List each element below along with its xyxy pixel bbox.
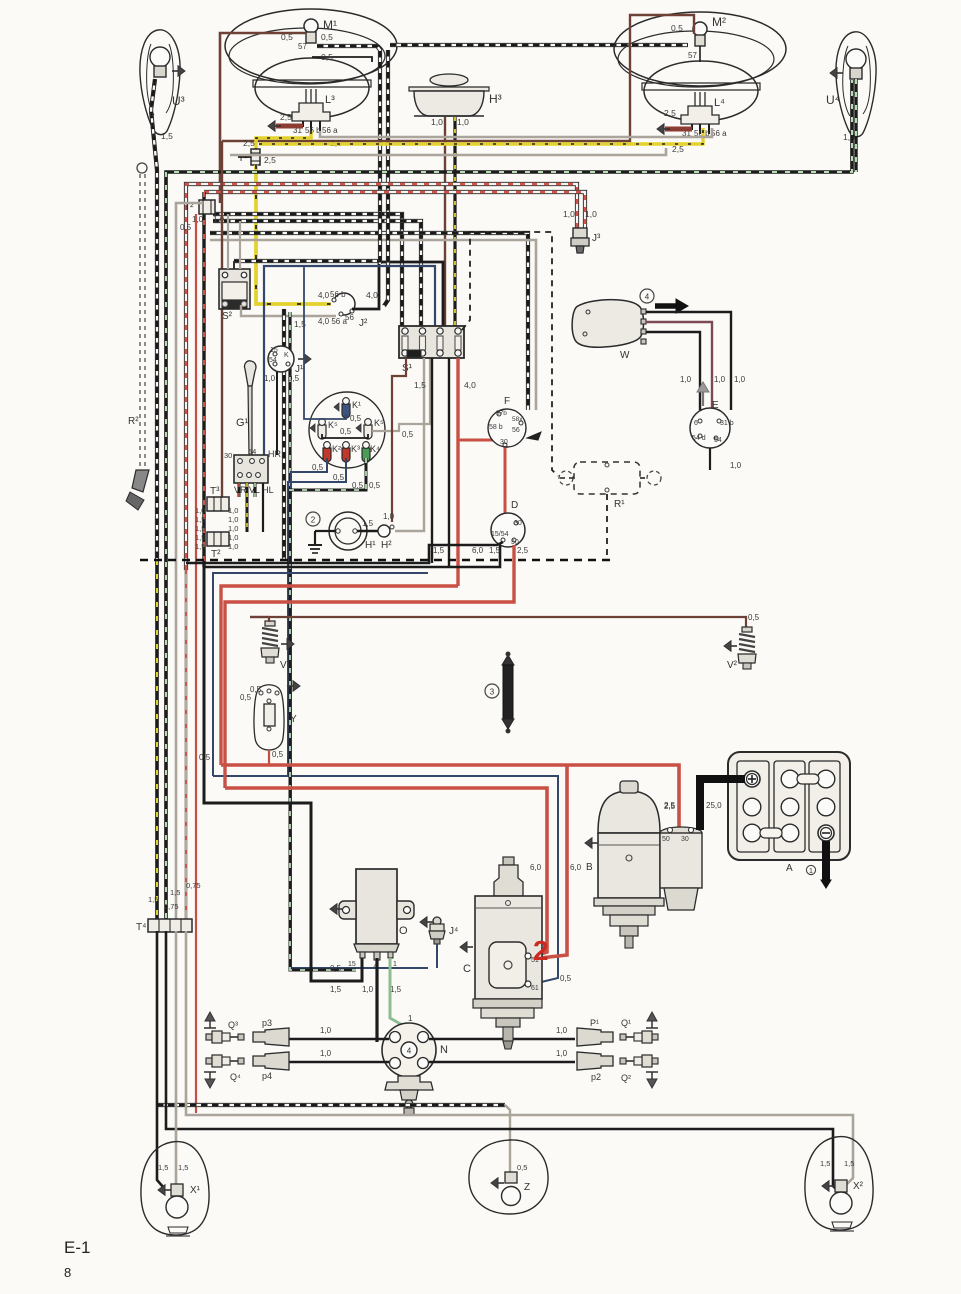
svg-text:1,0: 1,0: [680, 375, 692, 384]
second 57 wire striped (right headlight feed): [386, 50, 390, 212]
svg-text:1: 1: [809, 868, 813, 875]
generator pulley: [603, 906, 655, 915]
wiper motor W: [572, 300, 643, 348]
wire black pair below fuse box: [431, 358, 433, 563]
battery plus terminal: [744, 771, 760, 787]
fuse 3: [437, 328, 443, 334]
svg-text:V¹: V¹: [280, 660, 291, 671]
svg-text:1,0: 1,0: [734, 375, 746, 384]
wire black-white striped bottom row: [157, 1103, 505, 1107]
svg-text:0,5: 0,5: [240, 693, 252, 702]
svg-text:1,0: 1,0: [228, 506, 238, 515]
svg-text:1: 1: [393, 961, 397, 968]
svg-text:0,5: 0,5: [352, 481, 364, 490]
battery plus cable thick: [700, 779, 745, 830]
radio R1 dashed box: [560, 477, 574, 479]
svg-text:1,0: 1,0: [563, 209, 575, 219]
svg-text:50: 50: [511, 539, 519, 546]
svg-text:1,0: 1,0: [264, 374, 276, 383]
svg-text:D: D: [511, 500, 518, 511]
svg-text:1,0: 1,0: [585, 209, 597, 219]
svg-text:15: 15: [348, 961, 356, 968]
svg-text:Q¹: Q¹: [621, 1018, 631, 1028]
svg-text:0,5: 0,5: [330, 964, 342, 973]
svg-text:J²: J²: [359, 318, 368, 329]
svg-text:54: 54: [248, 447, 256, 456]
svg-text:54 d: 54 d: [692, 435, 706, 442]
svg-text:1,0: 1,0: [195, 506, 205, 515]
svg-text:2: 2: [533, 935, 549, 966]
svg-text:57: 57: [298, 42, 307, 51]
wire U4 1,5 black-green down: [854, 79, 857, 172]
wire grey from K5 right: [372, 358, 430, 431]
svg-text:Q²: Q²: [621, 1073, 631, 1083]
svg-text:E: E: [712, 400, 719, 411]
svg-text:T²: T²: [211, 549, 221, 560]
dashed wire at fuse box: [462, 232, 558, 476]
arrow at generator: [585, 838, 592, 849]
antenna R2 dashed: [137, 163, 147, 173]
wire grey bottom row to X2: [186, 931, 853, 1184]
wire stub left of T1: [238, 156, 251, 158]
circled 2: [306, 512, 320, 526]
svg-text:4,0: 4,0: [464, 380, 476, 390]
svg-text:1,5: 1,5: [158, 1163, 168, 1172]
warning lamp K1 blue: [342, 404, 350, 418]
ignition coil O: [356, 869, 397, 944]
svg-text:K³: K³: [351, 444, 360, 454]
svg-text:F: F: [504, 396, 510, 407]
svg-text:1,5: 1,5: [433, 546, 445, 555]
dimmer footswitch E: [690, 408, 730, 448]
bulb Z: [505, 1172, 517, 1183]
svg-text:1,0: 1,0: [556, 1049, 568, 1058]
wire red 4,0 from fuse box: [456, 358, 459, 586]
wire blue row: [213, 573, 428, 776]
battery cells: [781, 770, 799, 788]
bulb of U3: [150, 47, 170, 67]
svg-text:C: C: [463, 963, 471, 975]
svg-text:0,5: 0,5: [180, 223, 192, 232]
connector T2 lower: [207, 532, 229, 546]
svg-text:M¹: M¹: [323, 18, 337, 32]
svg-text:K²: K²: [332, 444, 341, 454]
svg-text:1,5: 1,5: [195, 524, 205, 533]
wire black 4,0 from J2 up and to fuse box: [352, 262, 443, 326]
svg-text:1,5: 1,5: [170, 888, 180, 897]
spark plug boot p3: [253, 1028, 289, 1046]
ignition switch D: [491, 513, 525, 547]
svg-text:E-1: E-1: [64, 1238, 90, 1257]
svg-text:1,0: 1,0: [228, 515, 238, 524]
svg-text:2,5: 2,5: [264, 155, 276, 165]
svg-text:30: 30: [681, 836, 689, 843]
svg-text:4,0 56 a: 4,0 56 a: [318, 317, 347, 326]
svg-text:1,0: 1,0: [431, 117, 443, 127]
svg-text:1,5: 1,5: [390, 985, 402, 994]
svg-text:Z: Z: [524, 1182, 530, 1193]
svg-text:HR: HR: [268, 449, 281, 459]
svg-text:M²: M²: [712, 15, 726, 29]
wire green coil to distributor: [390, 958, 404, 1026]
svg-text:6: 6: [694, 420, 698, 427]
horn wires 1,0: [444, 117, 446, 326]
light switch S2: [219, 269, 250, 309]
svg-text:O: O: [399, 925, 408, 937]
svg-text:6,0: 6,0: [472, 546, 484, 555]
svg-text:0,5: 0,5: [312, 463, 324, 472]
svg-text:54: 54: [269, 357, 277, 364]
connector T1: [251, 149, 260, 165]
svg-text:2,5: 2,5: [517, 546, 529, 555]
wire black-yellow lower left: [155, 560, 159, 931]
bulb X1: [171, 1184, 183, 1196]
fuse box S1: [399, 326, 464, 358]
turn signal U3 (front left): [140, 30, 180, 135]
svg-text:1,5: 1,5: [178, 1163, 188, 1172]
tail light X1: [141, 1142, 209, 1235]
wire blue row to starter terminal 61: [213, 776, 558, 984]
wire red branch to starter 51: [540, 765, 567, 958]
wire black-red striped row 2 to J3: [204, 192, 585, 228]
svg-text:58x: 58x: [512, 416, 523, 423]
svg-text:0,5: 0,5: [402, 430, 414, 439]
plug wire to p1: [429, 1038, 575, 1041]
svg-text:1,0: 1,0: [730, 461, 742, 470]
distributor N: [382, 1023, 436, 1077]
svg-text:U³: U³: [172, 94, 185, 108]
bulb M1: [304, 19, 318, 33]
wire M2 socket stub: [699, 46, 701, 62]
terminal pins 31 56b 56a of L3: [302, 121, 304, 127]
svg-text:2,5: 2,5: [672, 144, 684, 154]
spark plug Q3: [206, 1034, 212, 1040]
svg-text:1,0: 1,0: [714, 375, 726, 384]
starter solenoid: [660, 827, 702, 839]
bulb X2: [835, 1180, 847, 1192]
dimmer relay J2: [333, 293, 355, 315]
svg-text:X²: X²: [853, 1181, 864, 1192]
wire grey 58 run: [230, 148, 666, 155]
wire from J1 down: [276, 372, 278, 455]
starter C: [503, 857, 514, 865]
svg-text:15/54: 15/54: [491, 531, 509, 538]
wire grey 1,5 below fuse box: [395, 358, 424, 531]
svg-text:K⁴: K⁴: [370, 444, 380, 454]
svg-text:Q³: Q³: [228, 1020, 238, 1030]
wire black-white below S2: [282, 309, 286, 560]
wire black-red striped row to J3: [186, 184, 577, 570]
wire W to E maroon: [646, 322, 712, 410]
distributor base: [385, 1076, 433, 1090]
wire brown row to V2: [250, 617, 746, 628]
wire brown from T2 down to T3: [221, 141, 223, 497]
switch HR: [234, 455, 268, 483]
wire 57 black-white striped from M1: [317, 46, 380, 212]
wire striped 56 feeds: [378, 212, 382, 264]
svg-text:1,0: 1,0: [228, 542, 238, 551]
starter pulley: [473, 999, 542, 1008]
wire black-white striped row A to fuse 1: [213, 214, 402, 326]
svg-text:56 b: 56 b: [330, 290, 346, 299]
fuel gauge F: [488, 409, 526, 447]
wire blue J4 stub: [436, 944, 438, 968]
svg-text:p4: p4: [262, 1071, 272, 1081]
fuse 1: [402, 328, 408, 334]
svg-text:31 b: 31 b: [720, 420, 734, 427]
battery A: [728, 752, 850, 860]
wire black-white striped row B to fuse 2: [213, 221, 421, 326]
connector T3: [207, 497, 229, 511]
wire W to E black 1: [646, 312, 731, 410]
speedometer cluster K: [309, 392, 385, 468]
warning lamp K5 left: [318, 425, 326, 439]
spark plug Q2: [652, 1058, 658, 1064]
wire brown fuse box to H2: [392, 358, 406, 522]
svg-text:0,75: 0,75: [186, 881, 201, 890]
wiper washer valve V1: [265, 621, 275, 626]
svg-text:1,5: 1,5: [195, 542, 205, 551]
wire black-white striped row E to dimmer J2: [234, 259, 379, 263]
wire black-green striped to U4 (turn signal feed): [166, 80, 852, 931]
spark plug Q4: [206, 1058, 212, 1064]
headlight left lens bowl: [255, 58, 369, 118]
battery minus cable: [822, 841, 830, 880]
wire K5 to K5 link: [322, 434, 368, 438]
turn signal lever G1: [244, 361, 255, 386]
spark plug boot p4: [253, 1052, 289, 1070]
wire grey 56a from S2 to J2: [241, 305, 336, 316]
svg-text:W: W: [620, 350, 630, 361]
svg-text:1,5: 1,5: [362, 519, 374, 528]
svg-text:1,5: 1,5: [844, 1159, 854, 1168]
svg-text:6,0: 6,0: [530, 863, 542, 872]
spark plug Q1: [652, 1034, 658, 1040]
svg-text:1,0: 1,0: [320, 1049, 332, 1058]
wire grey drop to Z: [505, 1105, 510, 1172]
svg-text:57b: 57b: [496, 410, 507, 417]
svg-text:H²: H²: [381, 540, 392, 551]
bulb holder L3: [305, 89, 307, 103]
wire black-red striped vertical: [202, 192, 205, 567]
generator B: [598, 791, 660, 833]
svg-text:B: B: [586, 862, 593, 873]
plug wire to p3: [289, 1038, 389, 1041]
wire 57 run to right headlight: [390, 43, 688, 47]
svg-text:R¹: R¹: [614, 499, 625, 510]
svg-text:p2: p2: [591, 1072, 601, 1082]
dashed wire R1 down: [606, 494, 608, 560]
wire W to E black 2: [646, 332, 700, 410]
svg-text:54: 54: [714, 437, 722, 444]
svg-text:S¹: S¹: [402, 363, 413, 374]
svg-text:0,5: 0,5: [333, 473, 345, 482]
wires grey into S2: [227, 214, 229, 269]
svg-text:1,5: 1,5: [195, 515, 205, 524]
ground wire 31 with arrow at L3: [276, 124, 303, 129]
horn H3: [430, 74, 468, 86]
svg-text:L⁴: L⁴: [714, 97, 725, 109]
wires HR to connectors: [238, 483, 241, 497]
connector T4: [148, 919, 192, 932]
wire brown V1 up to row: [250, 617, 269, 622]
svg-text:T⁴: T⁴: [136, 922, 146, 933]
svg-text:1,5: 1,5: [414, 380, 426, 390]
svg-text:30: 30: [224, 451, 232, 460]
svg-text:0,5: 0,5: [281, 32, 293, 42]
wire red F to D: [504, 446, 507, 513]
svg-text:Y: Y: [290, 714, 297, 725]
wire red left 0,5 from T2: [195, 214, 197, 1113]
warning lamp K5 right: [364, 425, 372, 439]
svg-text:1,5: 1,5: [330, 985, 342, 994]
tail light X2: [805, 1137, 873, 1230]
svg-text:50: 50: [662, 836, 670, 843]
bulb of U4: [846, 49, 866, 69]
ground wire 31 with arrow at L4: [665, 127, 692, 132]
svg-text:L³: L³: [325, 94, 335, 106]
wires into D: [186, 542, 503, 563]
svg-text:1,0: 1,0: [228, 524, 238, 533]
svg-text:0,75: 0,75: [164, 902, 179, 911]
connector T2: [199, 200, 215, 214]
svg-text:X¹: X¹: [190, 1185, 201, 1196]
svg-text:1: 1: [408, 1014, 413, 1023]
svg-text:1,0: 1,0: [228, 533, 238, 542]
wire black bottom row to X2: [166, 931, 839, 1192]
headlight left outer reflector: [225, 9, 397, 83]
circled 1: [806, 865, 815, 874]
wire K3 blue down to generator circuit: [288, 458, 346, 776]
svg-text:K: K: [284, 352, 289, 359]
svg-text:K⁵: K⁵: [328, 420, 338, 430]
svg-text:2,5: 2,5: [664, 801, 676, 810]
wire grey to X1 cap: [175, 931, 178, 1184]
svg-text:15: 15: [270, 347, 278, 354]
svg-text:3: 3: [490, 688, 495, 697]
svg-text:1,5: 1,5: [820, 1159, 830, 1168]
oil pressure sender J4: [433, 917, 441, 925]
wire grey 56a from L3 to L4: [320, 128, 712, 137]
svg-text:4,0: 4,0: [366, 290, 378, 300]
svg-text:U⁴: U⁴: [826, 93, 840, 107]
wire K4 green-black striped: [290, 458, 366, 970]
wire green-black 1,5 below S2: [288, 312, 291, 490]
svg-text:56 a: 56 a: [711, 129, 727, 138]
item 3 cable: [502, 655, 514, 665]
wire brown M2: [222, 15, 694, 141]
svg-text:1,5: 1,5: [161, 131, 173, 141]
wire red main row to solenoid: [221, 765, 679, 827]
plug wire to p4: [289, 1061, 389, 1064]
svg-text:0,5: 0,5: [350, 414, 362, 423]
arrow at U4: [830, 68, 837, 79]
arrow at J1: [304, 354, 311, 365]
svg-text:S²: S²: [222, 311, 233, 322]
svg-text:R²: R²: [128, 416, 139, 427]
svg-text:0,5: 0,5: [560, 974, 572, 983]
wire black-white striped row C to fuel gauge: [210, 233, 528, 410]
svg-text:P¹: P¹: [590, 1018, 599, 1028]
wire black thick to distributor: [375, 958, 378, 1042]
svg-text:1,0: 1,0: [362, 985, 374, 994]
wire red stub to F 30: [458, 439, 497, 442]
dashed body line horizontal: [140, 559, 610, 562]
warning lamp K2 red: [323, 448, 331, 462]
license plate light Z: [469, 1140, 548, 1214]
svg-text:2,5: 2,5: [280, 112, 292, 122]
fuel sender Y: [254, 685, 284, 750]
wire red from D 50: [225, 545, 514, 788]
svg-text:1,5: 1,5: [148, 895, 158, 904]
wire K1 blue: [304, 266, 346, 419]
svg-text:N: N: [440, 1044, 448, 1056]
washer valve V2: [742, 627, 752, 632]
svg-text:1,0: 1,0: [320, 1026, 332, 1035]
svg-text:2,5: 2,5: [243, 138, 255, 148]
wire brown M1 to T2 column: [220, 33, 306, 203]
svg-text:T³: T³: [210, 486, 220, 497]
svg-text:4: 4: [645, 293, 650, 302]
wire yellow 2,5 from T1 to L4: [259, 128, 703, 144]
arrow at Y: [293, 681, 300, 692]
plug wire to p2: [429, 1061, 575, 1064]
svg-text:57: 57: [688, 51, 697, 60]
svg-text:56 a: 56 a: [322, 126, 338, 135]
wire red row A: [221, 586, 458, 765]
headlight right lens bowl: [644, 61, 758, 121]
fuse 4: [455, 328, 461, 334]
spark plug boot p1: [577, 1028, 613, 1046]
wire red to Y: [268, 750, 270, 765]
svg-text:61: 61: [531, 985, 539, 992]
svg-text:0,5: 0,5: [369, 481, 381, 490]
wire red row B to starter: [225, 788, 547, 956]
svg-text:J⁴: J⁴: [449, 926, 458, 937]
ground at H1: [315, 530, 336, 532]
svg-text:Q⁴: Q⁴: [230, 1072, 241, 1082]
svg-text:6,0: 6,0: [570, 863, 582, 872]
battery minus terminal: [818, 825, 834, 841]
svg-text:0,5: 0,5: [671, 23, 683, 33]
svg-text:G¹: G¹: [236, 417, 249, 429]
horn button H2: [357, 530, 378, 533]
arrow at U3: [178, 66, 185, 77]
svg-text:H¹: H¹: [365, 540, 376, 551]
svg-text:V²: V²: [727, 660, 738, 671]
svg-text:1,5: 1,5: [195, 533, 205, 542]
svg-text:4: 4: [407, 1047, 412, 1056]
svg-text:K⁵: K⁵: [374, 418, 384, 428]
bulb M2: [693, 22, 707, 36]
spark plug boot p2: [577, 1052, 613, 1070]
wire K2 blue to J4: [291, 458, 428, 968]
svg-text:58 b: 58 b: [489, 424, 503, 431]
svg-text:30: 30: [514, 520, 522, 527]
svg-text:A: A: [786, 863, 793, 874]
wire U3 1,5 black-white: [151, 79, 157, 560]
bulb holder L4: [694, 92, 696, 106]
svg-text:1,0: 1,0: [457, 117, 469, 127]
wire 0,5 from M1 socket down-right: [312, 57, 372, 62]
svg-text:1,0: 1,0: [192, 215, 204, 224]
svg-text:56: 56: [512, 427, 520, 434]
svg-text:0,5: 0,5: [748, 613, 760, 622]
wire grey-red striped left (to X2): [184, 570, 187, 931]
wire blue from bus to turn-signal switch: [264, 266, 435, 455]
svg-text:0,5: 0,5: [517, 1163, 527, 1172]
svg-text:1,5: 1,5: [489, 546, 501, 555]
